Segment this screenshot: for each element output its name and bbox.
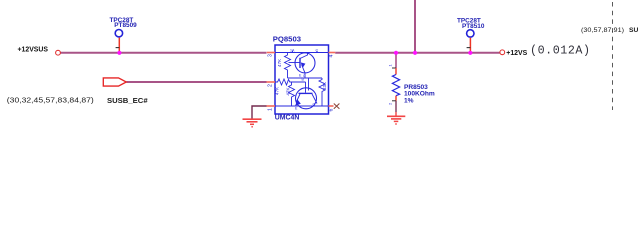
svg-text:PT8510: PT8510	[462, 23, 485, 30]
junction PR8503	[394, 51, 398, 55]
lower collector diagonal	[312, 94, 317, 104]
svg-text:C: C	[313, 103, 316, 107]
pin connection tick C	[316, 51, 318, 53]
svg-text:33K: 33K	[322, 81, 327, 90]
wire +12VS net right segment	[335, 52, 500, 54]
pin stubs red	[267, 53, 336, 107]
transistor Q2 emitter arrow	[295, 99, 301, 106]
svg-text:(30,57,87,91): (30,57,87,91)	[581, 27, 624, 34]
wire base link upper	[289, 62, 301, 64]
svg-text:47K: 47K	[286, 86, 291, 95]
resistor 47K lower vertical	[289, 82, 295, 106]
page connector dashed line	[612, 2, 614, 110]
svg-text:PT8509: PT8509	[114, 22, 137, 29]
wire SUSB_EC# net	[127, 81, 267, 83]
svg-text:1: 1	[268, 108, 274, 111]
svg-text:UMC4N: UMC4N	[275, 115, 300, 122]
no-connect X pin6	[334, 104, 340, 109]
junction PT8510	[468, 51, 472, 55]
svg-text:4: 4	[329, 55, 335, 58]
ground (pin1)	[243, 119, 262, 127]
resistor 47K upper	[285, 53, 291, 79]
svg-text:SU: SU	[629, 27, 638, 34]
port +12VS	[500, 50, 505, 55]
svg-text:SUSB_EC#: SUSB_EC#	[107, 96, 148, 105]
svg-text:47K: 47K	[275, 86, 280, 95]
pin connection tick 1A	[292, 51, 294, 53]
wire +12VSUS main net left segment	[61, 52, 267, 54]
junction vertical feed	[413, 51, 417, 55]
transistor Q1 emitter	[302, 65, 306, 73]
junction PT8509	[117, 51, 121, 55]
lower collector stub	[308, 78, 310, 91]
svg-text:C: C	[303, 74, 306, 78]
resistor 33K right	[319, 78, 325, 106]
internal wire bottom rail	[275, 105, 329, 107]
upper emitter stub	[304, 73, 306, 78]
svg-text:2: 2	[388, 102, 393, 105]
port +12VSUS	[56, 50, 61, 55]
SUSB_EC# input tag	[103, 78, 126, 86]
resistor PR8503	[392, 67, 396, 69]
svg-text:1%: 1%	[404, 97, 414, 104]
svg-text:PQ8503: PQ8503	[273, 34, 301, 43]
pin numbers rotated	[268, 54, 335, 112]
svg-text:1: 1	[388, 64, 393, 67]
wire drop to PR8503	[395, 53, 397, 68]
lower base stub	[305, 82, 307, 93]
svg-text:2: 2	[268, 84, 274, 87]
resistor 47K lower horizontal	[275, 79, 306, 85]
transistor Q1 base bar	[299, 58, 301, 68]
wire pin1 to ground	[252, 106, 267, 119]
wire vertical from top edge	[414, 0, 416, 53]
transistor Q1 circle	[295, 53, 315, 73]
svg-text:(0.012A): (0.012A)	[530, 44, 591, 58]
resistor value labels rotated	[275, 58, 327, 96]
svg-text:+12VSUS: +12VSUS	[18, 46, 49, 53]
ground (PR8503)	[387, 112, 405, 124]
internal tiny pin names	[290, 49, 319, 111]
svg-text:C: C	[316, 49, 319, 53]
svg-text:(30,32,45,57,83,84,87): (30,32,45,57,83,84,87)	[7, 96, 94, 105]
svg-text:1A: 1A	[290, 49, 295, 53]
svg-text:6: 6	[329, 109, 335, 112]
upper collector	[300, 53, 308, 59]
lower emitter diagonal	[297, 94, 301, 102]
svg-text:47K: 47K	[277, 58, 282, 67]
internal wire mid rail	[288, 77, 323, 79]
internal wire top rail	[275, 51, 329, 106]
svg-text:3: 3	[268, 54, 274, 57]
transistor Q2 base bar	[299, 92, 313, 94]
svg-text:+12VS: +12VS	[506, 50, 527, 57]
transistor Q2 circle	[296, 88, 317, 109]
